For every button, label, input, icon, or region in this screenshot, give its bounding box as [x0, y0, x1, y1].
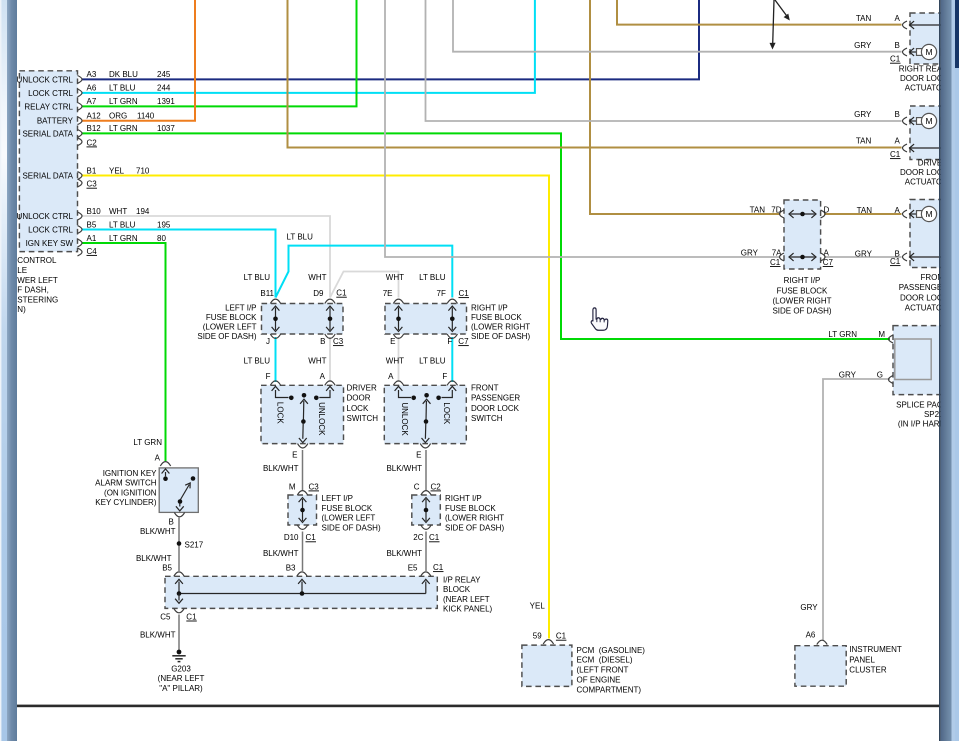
- svg-text:C1: C1: [890, 257, 901, 266]
- svg-text:GRY: GRY: [854, 110, 872, 119]
- svg-text:SIDE OF DASH): SIDE OF DASH): [445, 523, 504, 532]
- svg-text:TAN: TAN: [750, 206, 766, 215]
- wire WHT fuse block E to passenger switch A: [398, 337, 400, 382]
- svg-text:D10: D10: [284, 533, 299, 542]
- splice pack SP205: [893, 326, 944, 395]
- svg-text:(LOWER RIGHT: (LOWER RIGHT: [471, 323, 530, 332]
- fuse element B11-J: [275, 308, 277, 331]
- svg-text:LOCK: LOCK: [442, 402, 451, 424]
- svg-text:COMPARTMENT): COMPARTMENT): [577, 685, 642, 694]
- svg-text:IGN KEY SW: IGN KEY SW: [26, 239, 74, 248]
- front passenger door lock actuator M3: [910, 200, 955, 268]
- pin A: [325, 381, 335, 385]
- wire BLK/WHT ignition key alarm switch B through S217 to relay block B5: [178, 518, 180, 572]
- wire YEL 710 (BCM B1 serial data to PCM): [82, 176, 549, 639]
- svg-text:SIDE OF DASH): SIDE OF DASH): [471, 332, 530, 341]
- svg-text:INSTRUMENT: INSTRUMENT: [849, 645, 902, 654]
- svg-text:LT BLU: LT BLU: [109, 84, 136, 93]
- svg-text:WHT: WHT: [109, 207, 127, 216]
- svg-text:WER LEFT: WER LEFT: [17, 276, 58, 285]
- fuse element D9-B: [329, 308, 331, 331]
- right I/P fuse block (lower right) fuses: [784, 200, 821, 269]
- svg-text:BLK/WHT: BLK/WHT: [140, 527, 176, 536]
- svg-text:N): N): [17, 305, 26, 314]
- svg-text:TAN: TAN: [856, 137, 872, 146]
- pin A6: [817, 640, 827, 644]
- svg-text:ORG: ORG: [109, 112, 127, 121]
- svg-text:C1: C1: [429, 533, 440, 542]
- pin B: [325, 334, 335, 338]
- wire DK BLU 245 (BCM A3 unlock ctrl): [82, 0, 699, 79]
- pin B: [903, 253, 908, 261]
- wire TAN to right I/P fuse block pin 7D: [590, 0, 781, 214]
- svg-text:B: B: [320, 337, 325, 346]
- pin J: [270, 334, 280, 338]
- relay block internal bus: [178, 582, 180, 594]
- svg-text:B3: B3: [286, 563, 296, 572]
- wire GRY from fuse block A to front passenger door lock actuator B: [824, 256, 902, 258]
- ignition key alarm switch contacts: [162, 469, 170, 474]
- wire BLK/WHT driver switch E to left I/P fuse block M: [302, 450, 304, 491]
- wire LT GRN 80 (BCM A1 ign key sw to ignition key alarm switch): [82, 243, 166, 461]
- svg-text:B5: B5: [162, 563, 172, 572]
- wire GRY from splice pack G to instrument panel cluster A6: [823, 379, 890, 640]
- pin C5: [174, 608, 184, 612]
- splice S217: [177, 541, 182, 546]
- pin A: [903, 144, 908, 152]
- left I/P fuse block (upper): [262, 304, 344, 335]
- wire GRY to driver door lock actuator pin B: [426, 0, 902, 121]
- svg-text:FUSE BLOCK: FUSE BLOCK: [445, 504, 496, 513]
- pin C: [421, 491, 431, 495]
- svg-text:F: F: [447, 337, 452, 346]
- pin G: [889, 376, 894, 384]
- pin A: [903, 21, 908, 29]
- pin 7A: [780, 253, 785, 261]
- passenger switch common pole: [424, 393, 429, 398]
- svg-text:B: B: [895, 110, 900, 119]
- svg-text:ALARM SWITCH: ALARM SWITCH: [95, 479, 157, 488]
- pin B: [903, 117, 908, 125]
- svg-text:ECM (DIESEL): ECM (DIESEL): [577, 656, 633, 665]
- ignition key alarm switch S3: [159, 468, 198, 513]
- BCM pin A12: [78, 117, 83, 125]
- svg-text:E5: E5: [408, 563, 418, 572]
- actuator lead pin A: [909, 24, 956, 26]
- wire WHT fuse block B to driver switch A: [329, 337, 331, 382]
- BCM pin A7: [78, 103, 83, 111]
- pin 2C: [421, 525, 431, 529]
- svg-text:C4: C4: [87, 247, 98, 256]
- svg-text:GRY: GRY: [854, 41, 872, 50]
- svg-text:7F: 7F: [437, 289, 446, 298]
- svg-text:1140: 1140: [137, 112, 155, 121]
- svg-text:BATTERY: BATTERY: [37, 117, 74, 126]
- svg-text:TAN: TAN: [857, 206, 873, 215]
- fuse element 7D-D: [791, 213, 815, 215]
- motor symbol right rear door lock actuator: [909, 51, 917, 53]
- svg-text:194: 194: [136, 207, 150, 216]
- pin F: [447, 334, 457, 338]
- driver switch LOCK contact: [272, 386, 280, 391]
- pin 7F: [447, 299, 457, 303]
- wire WHT 194 branch to right I/P fuse block 7E: [330, 272, 399, 298]
- svg-text:RELAY CTRL: RELAY CTRL: [24, 102, 73, 111]
- driver door lock switch S1: [261, 385, 344, 443]
- BCM pin B1: [78, 172, 83, 180]
- svg-text:C1: C1: [890, 150, 901, 159]
- svg-text:SIDE OF DASH): SIDE OF DASH): [322, 523, 381, 532]
- svg-text:SWITCH: SWITCH: [347, 414, 379, 423]
- svg-text:E: E: [416, 451, 421, 460]
- svg-text:B10: B10: [87, 207, 102, 216]
- BCM pin A3: [78, 76, 83, 84]
- mouse hand cursor: [591, 308, 608, 330]
- pin M: [889, 335, 894, 343]
- svg-text:C1: C1: [306, 533, 317, 542]
- svg-text:A1: A1: [87, 234, 97, 243]
- svg-text:B11: B11: [260, 289, 274, 298]
- BCM pin A6: [78, 89, 83, 97]
- svg-text:LOCK CTRL: LOCK CTRL: [28, 89, 73, 98]
- svg-text:C1: C1: [556, 632, 567, 641]
- svg-text:(LOWER LEFT: (LOWER LEFT: [203, 323, 257, 332]
- wire LT GRN 1037 (BCM B12 serial data to splice pack SP205): [82, 133, 890, 339]
- svg-text:A: A: [895, 206, 901, 215]
- svg-text:WHT: WHT: [308, 273, 326, 282]
- svg-text:A3: A3: [87, 70, 97, 79]
- svg-text:SWITCH: SWITCH: [471, 414, 503, 423]
- svg-text:BLK/WHT: BLK/WHT: [140, 630, 176, 639]
- wire BLK/WHT left I/P fuse block D10 to I/P relay block B3: [302, 532, 304, 572]
- svg-text:(LEFT FRONT: (LEFT FRONT: [577, 666, 629, 675]
- svg-text:GRY: GRY: [800, 603, 818, 612]
- svg-text:B1: B1: [87, 166, 97, 175]
- svg-text:YEL: YEL: [530, 602, 546, 611]
- svg-text:S217: S217: [185, 540, 204, 549]
- svg-text:A: A: [388, 372, 394, 381]
- wire LT GRN 1391 (BCM A7 relay ctrl): [82, 0, 357, 106]
- svg-text:BLK/WHT: BLK/WHT: [386, 549, 422, 558]
- svg-text:PCM (GASOLINE): PCM (GASOLINE): [577, 646, 646, 655]
- svg-text:(ON IGNITION: (ON IGNITION: [104, 488, 157, 497]
- svg-text:CLUSTER: CLUSTER: [849, 666, 887, 675]
- svg-text:LT GRN: LT GRN: [109, 97, 138, 106]
- svg-text:BLK/WHT: BLK/WHT: [136, 554, 172, 563]
- pin E: [298, 444, 308, 448]
- svg-text:80: 80: [157, 234, 166, 243]
- diagram page bottom border: [17, 705, 939, 708]
- svg-text:LT BLU: LT BLU: [109, 220, 136, 229]
- fuse element C-2C: [425, 499, 427, 521]
- svg-text:7A: 7A: [772, 249, 782, 258]
- svg-text:C: C: [414, 482, 420, 491]
- svg-text:FUSE BLOCK: FUSE BLOCK: [206, 313, 257, 322]
- passenger switch UNLOCK contact: [395, 386, 403, 391]
- BCM connector stub C2: [78, 138, 83, 146]
- svg-text:A: A: [895, 14, 901, 23]
- wire LT BLU fuse block J to driver switch F: [275, 337, 277, 382]
- svg-text:I/P RELAY: I/P RELAY: [443, 576, 481, 585]
- svg-text:UNLOCK: UNLOCK: [400, 402, 409, 436]
- svg-text:BLOCK: BLOCK: [443, 585, 471, 594]
- svg-text:C1: C1: [770, 258, 781, 267]
- svg-text:C1: C1: [433, 563, 444, 572]
- svg-text:G: G: [877, 370, 883, 379]
- svg-text:M: M: [925, 47, 932, 57]
- right I/P fuse block (lower) fuse: [412, 495, 441, 525]
- driver switch UNLOCK contact: [326, 386, 334, 391]
- svg-text:B12: B12: [87, 124, 102, 133]
- actuator lead pin A: [909, 147, 956, 149]
- svg-text:GRY: GRY: [741, 249, 759, 258]
- svg-text:C3: C3: [87, 180, 98, 189]
- svg-text:C1: C1: [890, 55, 901, 64]
- wire LT BLU branch B11 to right I/P fuse block 7F: [276, 246, 453, 298]
- svg-text:7D: 7D: [771, 206, 781, 215]
- svg-text:LT BLU: LT BLU: [287, 233, 314, 242]
- svg-text:710: 710: [136, 166, 150, 175]
- svg-text:TAN: TAN: [856, 14, 872, 23]
- svg-text:LT GRN: LT GRN: [109, 124, 138, 133]
- svg-text:M: M: [925, 116, 932, 126]
- driver switch common pole: [302, 393, 307, 398]
- svg-text:LEFT I/P: LEFT I/P: [225, 303, 256, 312]
- svg-text:C2: C2: [431, 482, 442, 491]
- svg-text:GRY: GRY: [839, 370, 857, 379]
- svg-text:(NEAR LEFT: (NEAR LEFT: [443, 595, 490, 604]
- wire LT BLU 244 (BCM A6 lock ctrl): [82, 0, 535, 93]
- svg-text:A: A: [824, 249, 830, 258]
- svg-text:UNLOCK: UNLOCK: [317, 402, 326, 436]
- svg-text:SERIAL DATA: SERIAL DATA: [22, 171, 73, 180]
- right rear door lock actuator M1: [910, 13, 955, 64]
- svg-text:LT GRN: LT GRN: [828, 330, 857, 339]
- pin A: [393, 381, 403, 385]
- svg-text:C3: C3: [309, 482, 320, 491]
- pin 7D: [780, 210, 785, 218]
- annotation arrow pointing to GRY wire: [773, 0, 774, 44]
- svg-text:LOCK CTRL: LOCK CTRL: [28, 225, 73, 234]
- wire LT BLU 195 (BCM B5 lock ctrl to left I/P fuse block B11): [82, 230, 276, 298]
- svg-text:LT GRN: LT GRN: [109, 234, 138, 243]
- svg-text:RIGHT I/P: RIGHT I/P: [471, 303, 508, 312]
- motor symbol driver door lock actuator: [909, 120, 917, 122]
- pin B: [174, 512, 184, 516]
- wire BLK/WHT passenger switch E to right I/P fuse block C: [425, 450, 427, 491]
- BCM pin B12: [78, 130, 83, 138]
- pin E: [393, 334, 403, 338]
- front passenger door lock switch S2: [384, 385, 466, 443]
- svg-text:J: J: [266, 337, 270, 346]
- wire BLK/WHT relay block C5 to ground G203: [178, 615, 180, 652]
- BCM pin B10: [78, 212, 83, 220]
- svg-text:E: E: [292, 451, 297, 460]
- pin A: [903, 210, 908, 218]
- svg-text:B: B: [895, 41, 900, 50]
- svg-text:WHT: WHT: [308, 357, 326, 366]
- svg-text:A12: A12: [87, 112, 102, 121]
- svg-text:F: F: [442, 372, 447, 381]
- svg-text:7E: 7E: [383, 289, 393, 298]
- pin B11: [270, 299, 280, 303]
- pin 59: [543, 640, 553, 644]
- svg-text:F: F: [266, 372, 271, 381]
- fuse element 7E-E: [398, 308, 400, 331]
- svg-text:FRONT: FRONT: [471, 384, 499, 393]
- svg-text:C1: C1: [186, 612, 197, 621]
- svg-text:DOOR LOCK: DOOR LOCK: [471, 404, 520, 413]
- ground G203: [177, 650, 182, 655]
- svg-text:RIGHT I/P: RIGHT I/P: [784, 276, 821, 285]
- actuator lead pin B: [909, 256, 956, 258]
- left I/P fuse block (lower) fuse: [288, 495, 317, 525]
- svg-text:2C: 2C: [413, 533, 423, 542]
- wire BLK/WHT right I/P fuse block 2C to I/P relay block E5: [425, 532, 427, 572]
- svg-text:LOCK: LOCK: [347, 404, 369, 413]
- svg-text:UNLOCK CTRL: UNLOCK CTRL: [17, 212, 74, 221]
- wire LT BLU fuse block F to passenger switch F: [451, 337, 453, 382]
- svg-text:SERIAL DATA: SERIAL DATA: [22, 129, 73, 138]
- svg-text:E: E: [390, 337, 395, 346]
- svg-text:F DASH,: F DASH,: [17, 286, 49, 295]
- wire WHT 194 (BCM B10 unlock ctrl to left I/P fuse block D9): [82, 216, 330, 298]
- wire TAN to right rear door lock actuator pin A: [617, 0, 902, 25]
- svg-text:G203: G203: [171, 664, 191, 673]
- pin 7E: [393, 299, 403, 303]
- svg-text:PANEL: PANEL: [849, 655, 875, 664]
- wire TAN to driver door lock actuator pin A: [288, 0, 902, 148]
- svg-text:LE: LE: [17, 266, 27, 275]
- svg-text:FUSE BLOCK: FUSE BLOCK: [471, 313, 522, 322]
- svg-text:"A" PILLAR): "A" PILLAR): [159, 684, 203, 693]
- svg-text:(NEAR LEFT: (NEAR LEFT: [158, 674, 205, 683]
- svg-text:A6: A6: [87, 84, 97, 93]
- pin M: [297, 491, 307, 495]
- svg-text:LOCK: LOCK: [276, 402, 285, 424]
- svg-text:244: 244: [157, 84, 171, 93]
- svg-text:C5: C5: [160, 612, 171, 621]
- svg-text:M: M: [289, 482, 296, 491]
- svg-text:LT BLU: LT BLU: [419, 357, 446, 366]
- fuse element 7A-A: [791, 256, 815, 258]
- svg-text:GRY: GRY: [855, 249, 873, 258]
- svg-text:OF ENGINE: OF ENGINE: [577, 676, 621, 685]
- pin D9: [325, 299, 335, 303]
- svg-text:(LOWER LEFT: (LOWER LEFT: [322, 514, 376, 523]
- pin E5: [421, 572, 431, 576]
- pin E: [420, 444, 430, 448]
- svg-text:1037: 1037: [157, 124, 175, 133]
- svg-text:LT BLU: LT BLU: [244, 357, 271, 366]
- pin D10: [297, 525, 307, 529]
- svg-text:DK BLU: DK BLU: [109, 70, 138, 79]
- svg-text:RIGHT I/P: RIGHT I/P: [445, 494, 482, 503]
- pin B: [903, 48, 908, 56]
- svg-text:A: A: [320, 372, 326, 381]
- right I/P fuse block (upper): [385, 304, 467, 335]
- motor symbol front passenger door lock actuator: [909, 213, 917, 215]
- splice pack bus loop: [895, 339, 931, 380]
- svg-text:C7: C7: [823, 258, 834, 267]
- svg-text:(LOWER RIGHT: (LOWER RIGHT: [772, 296, 831, 305]
- svg-text:SIDE OF DASH): SIDE OF DASH): [772, 307, 831, 316]
- svg-text:KICK PANEL): KICK PANEL): [443, 605, 493, 614]
- instrument panel cluster: [795, 646, 846, 687]
- svg-text:LEFT I/P: LEFT I/P: [322, 494, 353, 503]
- pin D: [821, 210, 826, 218]
- svg-text:DOOR: DOOR: [347, 394, 371, 403]
- svg-text:C1: C1: [336, 289, 347, 298]
- svg-text:STEERING: STEERING: [17, 295, 58, 304]
- svg-text:59: 59: [533, 632, 542, 641]
- wire GRY to right I/P fuse block pin 7A: [385, 0, 781, 257]
- svg-text:DRIVER: DRIVER: [347, 384, 377, 393]
- svg-text:CONTROL: CONTROL: [17, 256, 57, 265]
- svg-text:BLK/WHT: BLK/WHT: [386, 464, 422, 473]
- svg-text:1391: 1391: [157, 97, 175, 106]
- BCM pin B5: [78, 226, 83, 234]
- svg-text:UNLOCK CTRL: UNLOCK CTRL: [17, 75, 74, 84]
- svg-text:KEY CYLINDER): KEY CYLINDER): [95, 498, 157, 507]
- svg-text:IGNITION KEY: IGNITION KEY: [103, 469, 157, 478]
- svg-text:C3: C3: [333, 337, 344, 346]
- fuse element M-D10: [302, 499, 304, 521]
- svg-text:A6: A6: [806, 631, 816, 640]
- svg-text:WHT: WHT: [386, 273, 404, 282]
- svg-text:WHT: WHT: [386, 357, 404, 366]
- svg-text:D: D: [824, 206, 830, 215]
- svg-text:SIDE OF DASH): SIDE OF DASH): [197, 332, 256, 341]
- svg-text:FUSE BLOCK: FUSE BLOCK: [322, 504, 373, 513]
- svg-text:B: B: [168, 517, 173, 526]
- svg-text:FUSE BLOCK: FUSE BLOCK: [777, 286, 828, 295]
- PCM/ECM module: [522, 645, 572, 686]
- svg-text:(LOWER RIGHT: (LOWER RIGHT: [445, 514, 504, 523]
- svg-text:BLK/WHT: BLK/WHT: [263, 549, 299, 558]
- svg-text:LT BLU: LT BLU: [419, 273, 446, 282]
- svg-text:245: 245: [157, 70, 171, 79]
- svg-text:PASSENGER: PASSENGER: [471, 394, 520, 403]
- pin A: [821, 253, 826, 261]
- svg-text:M: M: [925, 209, 932, 219]
- BCM connector stub C4: [78, 248, 83, 256]
- pin F: [447, 381, 457, 385]
- fuse element 7F-F: [451, 308, 453, 331]
- svg-text:A: A: [895, 137, 901, 146]
- wire GRY to right rear door lock actuator pin B: [453, 0, 902, 52]
- svg-text:B5: B5: [87, 220, 97, 229]
- svg-text:LT BLU: LT BLU: [244, 273, 271, 282]
- pin F: [270, 381, 280, 385]
- wire ORG 1140 (BCM A12 battery): [82, 0, 195, 121]
- pin A: [160, 462, 170, 466]
- wire TAN from fuse block D to front passenger door lock actuator A: [824, 213, 902, 215]
- driver door lock actuator M2: [910, 106, 955, 160]
- svg-text:YEL: YEL: [109, 166, 125, 175]
- svg-text:C1: C1: [459, 289, 470, 298]
- passenger switch LOCK contact: [448, 386, 456, 391]
- svg-text:A7: A7: [87, 97, 97, 106]
- svg-text:195: 195: [157, 220, 171, 229]
- BCM pin A1: [78, 239, 83, 247]
- svg-text:D9: D9: [313, 289, 324, 298]
- annotation arrow pointing to TAN wire: [775, 0, 787, 17]
- connector C2/C3/C4 body control module (BCM) U1: [19, 71, 77, 252]
- BCM connector stub C3: [78, 179, 83, 187]
- pin B5: [174, 572, 184, 576]
- svg-text:C2: C2: [87, 138, 98, 147]
